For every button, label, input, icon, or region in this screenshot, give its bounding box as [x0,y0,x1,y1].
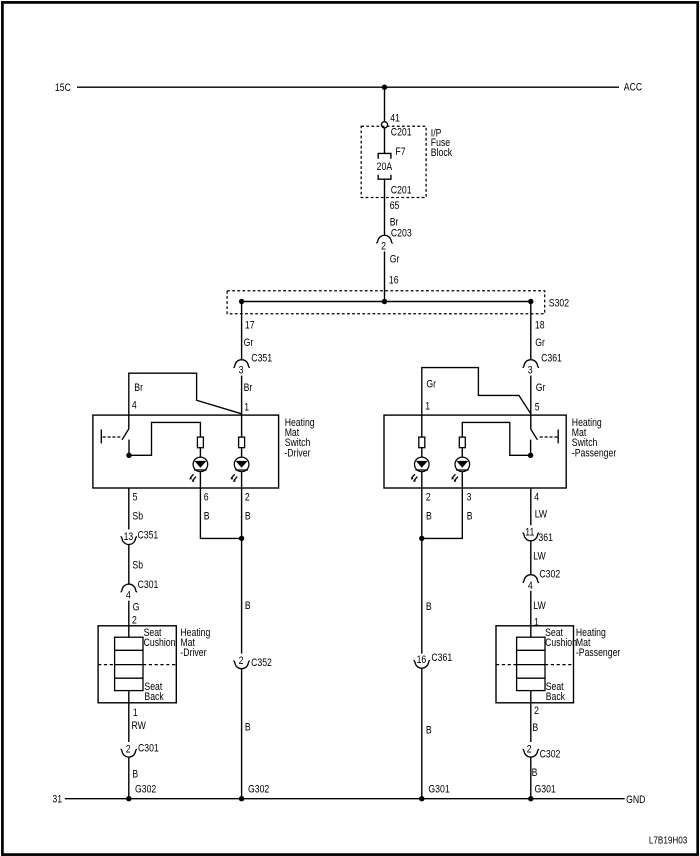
wire: C361 to ground G301, B [421,668,423,799]
svg-text:Cushion: Cushion [545,637,577,649]
svg-text:Cushion: Cushion [144,637,176,649]
svg-text:B: B [426,511,432,523]
pin 2 [426,492,431,504]
wire: C352 to ground G302, B [241,669,243,799]
label Seat Cushion (passenger) [545,627,577,649]
svg-text:3: 3 [239,365,244,377]
wire: C302 to mat pin 1, LW [530,591,532,637]
connector C352 pin 2 [233,655,272,669]
wire color B (pin 2) [245,511,251,523]
svg-text:2: 2 [426,492,431,504]
svg-text:C301: C301 [138,743,159,755]
wire: C351 to C301, Sb [128,544,130,584]
svg-text:B: B [426,725,432,737]
svg-text:31: 31 [52,794,62,806]
junction (passenger switch) [528,453,533,458]
connector C201 (top) [391,127,412,139]
wire color LW [533,551,546,563]
svg-text:C351: C351 [251,353,272,365]
svg-text:Gr: Gr [535,337,545,349]
wire color Gr (pin 1 branch) [426,379,436,391]
connector C351 pin 13 [121,530,159,545]
pin 2 (passenger mat) [534,705,539,717]
svg-text:18: 18 [535,320,545,332]
svg-text:G302: G302 [248,784,269,796]
svg-text:3: 3 [467,492,472,504]
connector C361 pin 3 [523,353,562,377]
wire color Gr [390,254,400,266]
svg-text:2: 2 [132,615,137,627]
wire: fuse to C203, Br [384,179,386,235]
svg-text:2: 2 [239,655,244,667]
svg-text:2: 2 [126,744,131,756]
wire color B [245,722,251,734]
svg-text:15C: 15C [55,82,71,94]
wire color B (pin 6) [204,511,210,523]
svg-text:C302: C302 [539,569,560,581]
svg-text:2: 2 [245,492,250,504]
pin 1 (passenger mat) [534,617,539,629]
label Seat Back (passenger) [546,681,565,703]
svg-text:17: 17 [245,320,255,332]
wire color B [426,725,432,737]
wire color Gr [244,337,254,349]
svg-text:C361: C361 [431,652,452,664]
svg-text:41: 41 [390,113,400,125]
pin 41 [390,113,400,125]
svg-text:5: 5 [535,402,540,414]
label Seat Cushion (driver) [144,627,176,649]
wire: rail to fuse block pin 41 [384,87,386,121]
svg-text:Sb: Sb [132,511,143,523]
pin 18 [535,320,545,332]
svg-text:13: 13 [124,531,134,543]
svg-text:4: 4 [534,492,539,504]
pin 65 [390,200,400,212]
label Heating Mat -Passenger [576,627,621,659]
svg-text:4: 4 [126,590,131,602]
pin 17 [245,320,255,332]
label Heating Mat -Driver [180,627,210,659]
svg-text:ACC: ACC [624,82,642,94]
connector C203 pin 2 [376,228,411,253]
svg-text:C301: C301 [138,579,159,591]
svg-text:LW: LW [533,551,546,563]
ground G302 (driver mat) [126,784,156,802]
heating mat passenger box [496,626,574,703]
wire: C302 to ground G301, B [530,757,532,799]
heating mat switch passenger box [384,415,566,488]
pin 1 (passenger switch) [425,401,430,413]
wire: C301 to heating mat pin 2, G [128,601,130,638]
connector C301 pin 4 [121,579,159,602]
wire color Br [244,382,253,394]
svg-text:5: 5 [133,492,138,504]
svg-text:4: 4 [132,400,137,412]
svg-text:G302: G302 [135,784,156,796]
wire: mat pin 2 down, B [530,691,532,742]
fuse F7 20A [377,146,406,179]
switch contact (driver), pin 4 feed [128,415,130,429]
node 15C [55,82,71,94]
wire: C203 to splice S302, Gr [384,251,386,301]
splice S302 [227,291,569,314]
wire: pin 2 down to C361 [421,488,423,654]
switch actuator dashed link [101,430,121,444]
switch blade (driver) [122,429,129,440]
wire color G [133,602,140,614]
connector C361 pin 16 [414,652,453,668]
svg-text:-Passenger: -Passenger [576,647,621,659]
wire color B [532,767,538,779]
drawing number L7B19H03 [649,835,687,846]
resistor + indicator LED (driver pin 2 branch) [230,437,249,488]
svg-text:B: B [245,722,251,734]
svg-text:Gr: Gr [244,337,254,349]
connector C351 pin 3 [233,353,272,377]
pin 3 [467,492,472,504]
svg-text:B: B [426,601,432,613]
heating mat switch driver box [93,415,279,488]
wire: mat pin 1 down, RW [128,691,130,742]
wire: pin 6 joins pin 2 wire [200,488,244,541]
svg-text:C201: C201 [391,185,412,197]
wire: blade to junction [530,440,532,456]
heater element (passenger) [517,637,545,690]
svg-text:B: B [245,511,251,523]
wire color B (above C361) [426,601,432,613]
connector C301 pin 2 [121,743,159,757]
label Heating Mat Switch -Driver [284,417,314,459]
svg-text:LW: LW [535,509,548,521]
svg-text:-Driver: -Driver [180,647,207,659]
wire color B (above C352) [245,600,251,612]
svg-text:11: 11 [525,527,534,539]
pin 6 [204,492,209,504]
wire: pin 1 to resistor [241,415,243,437]
svg-text:-Driver: -Driver [284,448,311,460]
wire: junction to indicator LED branch [462,422,531,455]
wire: pin 5 to switch [128,488,130,530]
pin 5 [133,492,138,504]
wire color Br [390,217,399,229]
wire: branch to switch pin 1 [422,368,531,416]
svg-text:Gr: Gr [426,379,436,391]
svg-text:C302: C302 [540,749,561,761]
svg-text:16: 16 [417,654,427,666]
svg-text:65: 65 [390,200,400,212]
connector C302 pin 4 [523,569,561,593]
wire: S302 pin 18 to C361, Gr [530,302,532,360]
svg-text:GND: GND [626,794,645,806]
svg-text:20A: 20A [377,161,393,173]
svg-text:1: 1 [244,402,249,414]
svg-text:B: B [467,511,473,523]
dashed cushion/back divider (passenger) [496,664,574,666]
wire: pin 4 to switch [530,488,532,525]
pin 5 (passenger switch) [535,402,540,414]
label Heating Mat Switch -Passenger [572,417,617,459]
wire color Sb [132,511,143,523]
connector ring C201 pin 41 [381,122,387,128]
svg-text:Gr: Gr [536,382,546,394]
switch blade (passenger) [531,429,538,440]
pin 1 (driver switch) [244,402,249,414]
wire: pin 2 down to C352 [241,488,243,654]
svg-text:C361: C361 [541,353,562,365]
switch contact (passenger), pin 5 feed [530,415,532,429]
node GND [626,794,645,806]
node 31 [52,794,62,806]
dashed cushion/back divider (driver) [98,664,176,666]
ground rail 31/GND [65,798,625,800]
svg-text:6: 6 [204,492,209,504]
ground G301 (passenger mat) [528,784,556,802]
wire: S302 pin 17 to C351, Gr [241,302,243,360]
wire: C351 to switch pin 1, Br [241,376,243,416]
svg-text:Br: Br [244,382,253,394]
svg-text:B: B [245,600,251,612]
wire color B [132,769,138,781]
svg-text:1: 1 [425,401,430,413]
svg-text:F7: F7 [395,146,405,158]
svg-text:C201: C201 [391,127,412,139]
svg-text:4: 4 [528,580,533,592]
svg-text:L7B19H03: L7B19H03 [649,835,687,846]
svg-text:B: B [532,722,538,734]
svg-text:16: 16 [389,275,399,287]
resistor + indicator LED (passenger pin 2 branch) [411,437,430,488]
wire: pin 41 to fuse F7 [384,128,386,153]
svg-text:-Passenger: -Passenger [572,448,617,460]
wire color Gr [536,382,546,394]
svg-text:Block: Block [431,147,452,159]
wire color Sb [132,560,143,572]
pin 16 [389,275,399,287]
resistor + indicator LED (passenger pin 3 branch) [451,437,470,488]
svg-text:Back: Back [546,691,565,703]
svg-text:B: B [132,769,138,781]
wire: pin 1 to resistor [421,415,423,437]
svg-text:G301: G301 [428,784,449,796]
svg-text:G: G [133,602,140,614]
svg-text:3: 3 [528,365,533,377]
svg-text:1: 1 [534,617,539,629]
wire color Br (pin 4 branch) [134,382,143,394]
svg-text:B: B [532,767,538,779]
svg-text:Gr: Gr [390,254,400,266]
resistor + indicator LED (driver pin 6 branch) [189,437,208,488]
pin 2 [245,492,250,504]
svg-text:C351: C351 [138,530,159,542]
ground G301 (switch LEDs) [419,784,450,802]
wire: 361 to C302, LW [530,541,532,575]
pin 1 (driver mat) [133,707,138,719]
svg-text:LW: LW [533,600,546,612]
svg-text:Sb: Sb [132,560,143,572]
wire color LW [533,600,546,612]
wire color B [532,722,538,734]
wire color Gr [535,337,545,349]
switch actuator dashed link [540,430,559,444]
wire: C361 to switch pin 5, Gr [530,376,532,416]
wire: 15C/ACC accessory feed rail [77,86,619,88]
wire: C301 to ground G302, B [128,757,130,799]
svg-text:2: 2 [381,241,386,253]
pin 2 (driver mat) [132,615,137,627]
node ACC [624,82,642,94]
svg-text:1: 1 [133,707,138,719]
junction on feed rail [382,85,387,90]
svg-text:2: 2 [534,705,539,717]
wire: junction to indicator LED branch [129,422,201,455]
wire color LW [535,509,548,521]
I/P fuse block dashed outline [361,126,426,197]
heating mat driver box [98,626,176,703]
svg-text:G301: G301 [535,784,556,796]
ground G302 (switch LEDs) [239,784,269,802]
svg-text:S302: S302 [549,298,569,310]
svg-text:C203: C203 [391,228,412,240]
wire color RW [132,720,147,732]
label Seat Back (driver) [144,681,163,703]
connector C302 pin 2 [523,744,561,761]
wire: branch to switch pin 4 [129,373,242,415]
svg-text:361: 361 [538,532,553,544]
pin 4 [534,492,539,504]
label I/P Fuse Block [431,128,452,160]
svg-text:C352: C352 [251,657,272,669]
wire: blade to junction [128,440,130,456]
svg-text:Br: Br [134,382,143,394]
connector 361 pin 11 [523,527,553,545]
pin 4 (driver switch) [132,400,137,412]
svg-text:B: B [204,511,210,523]
wire color B (pin 3) [467,511,473,523]
svg-text:RW: RW [132,720,147,732]
svg-text:Back: Back [144,691,163,703]
connector C201 (bottom) [391,185,412,197]
junction (driver switch) [126,453,131,458]
wire color B (pin 2) [426,511,432,523]
wire: pin 3 joins pin 2 wire [419,488,462,541]
svg-text:2: 2 [527,744,532,756]
heater element (driver) [115,637,143,690]
